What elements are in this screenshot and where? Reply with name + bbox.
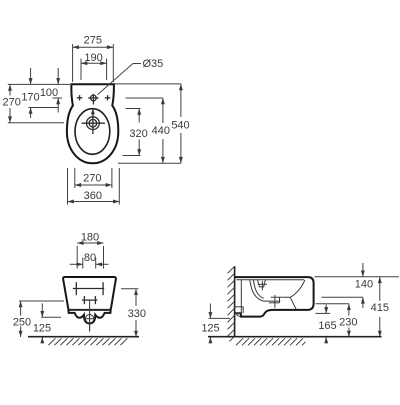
left fixing cross (top view)	[77, 95, 82, 100]
label Ø35 with leader	[98, 58, 164, 95]
extension line at inner-bowl bottom level (top view)	[123, 155, 141, 157]
svg-text:125: 125	[201, 323, 219, 335]
extension line 140 bottom level (side view)	[322, 296, 363, 298]
dim 125 (front view)	[33, 303, 51, 343]
dim 270 (top view left)	[3, 84, 21, 122]
svg-text:140: 140	[355, 278, 373, 290]
left extension line at top edge level (top view)	[8, 83, 70, 85]
dim 165 (side view)	[318, 305, 336, 344]
dim 270 (top view bottom)	[75, 168, 112, 188]
faucet hole symbol (top view)	[88, 94, 98, 105]
dim 250 (front view)	[13, 301, 31, 337]
extension line at 320 top level (top view)	[126, 108, 141, 110]
dim 330 (front view)	[128, 289, 146, 337]
svg-text:100: 100	[40, 87, 58, 99]
svg-text:320: 320	[129, 128, 147, 140]
svg-text:190: 190	[84, 52, 102, 64]
dim 170 (top view left)	[21, 68, 39, 118]
drain crosshair vertical (top view)	[92, 113, 94, 135]
extension line body top level (side view)	[315, 276, 400, 278]
extension line rim level right (front view)	[121, 288, 138, 290]
wall hatch (side view)	[228, 266, 235, 341]
svg-text:Ø35: Ø35	[143, 58, 164, 70]
extension line 250 level (front view)	[19, 300, 64, 302]
extension line at bowl bottom level (top view)	[118, 162, 181, 164]
rim line with fixing crosses (front view)	[73, 282, 104, 295]
bowl outer outline (top view)	[67, 84, 118, 163]
wall line (side view)	[234, 266, 236, 337]
bowl section profile (side view)	[250, 280, 280, 301]
lower holes line with crosses (front view)	[82, 296, 97, 304]
extension line at faucet level right (top view)	[126, 97, 163, 99]
bottom trap outline (front view)	[68, 310, 110, 324]
jet arrow on rim (top view)	[91, 108, 95, 114]
extension line 125 top level (side view)	[209, 317, 231, 319]
extension line at 170 level (top view)	[28, 107, 58, 109]
extension line 165 top level (side view)	[316, 312, 331, 314]
dim 540 (top view right)	[171, 84, 189, 163]
extension line 125 level (front view)	[41, 316, 61, 318]
extension line at faucet level left (top view)	[53, 97, 63, 99]
ground line (side view)	[208, 336, 382, 338]
body outline (front view)	[63, 277, 116, 310]
dim 100 (top view left)	[40, 68, 60, 113]
drain inner circle (top view)	[89, 119, 97, 127]
drain outlet cross (front view)	[84, 318, 95, 320]
svg-text:250: 250	[13, 316, 31, 328]
svg-text:540: 540	[171, 120, 189, 132]
inner top surface line (side view)	[237, 279, 305, 281]
extension line at drain level left (top view)	[8, 122, 64, 124]
svg-text:360: 360	[84, 190, 102, 202]
bowl inner rim ellipse (top view)	[75, 109, 110, 155]
svg-text:230: 230	[339, 317, 357, 329]
dim 320 (top view right)	[129, 109, 147, 156]
ground hatch (front view)	[48, 338, 127, 345]
extension line 230 top level (side view)	[316, 303, 349, 305]
ground line (front view)	[28, 336, 139, 338]
rear inner vertical (side view)	[240, 280, 242, 313]
center line (front view)	[89, 300, 91, 331]
svg-text:440: 440	[152, 125, 170, 137]
svg-text:270: 270	[83, 173, 101, 185]
dim 230 (side view)	[339, 304, 357, 337]
bottom edge line (front view)	[69, 309, 111, 311]
drain crosshair horizontal (top view)	[82, 122, 105, 124]
body outline (side view)	[235, 277, 314, 317]
ground hatch (side view)	[236, 338, 306, 345]
dim 80 (front view)	[70, 252, 109, 269]
svg-text:415: 415	[371, 302, 389, 314]
right fixing cross (top view)	[105, 95, 110, 100]
dim 140 (side view)	[355, 263, 373, 308]
svg-text:270: 270	[3, 96, 21, 108]
dim 180 (front view)	[77, 232, 103, 269]
svg-text:165: 165	[318, 320, 336, 332]
svg-text:170: 170	[21, 92, 39, 104]
dim 275 (top)	[73, 35, 114, 83]
dim 440 (top view right)	[152, 98, 170, 163]
svg-text:330: 330	[128, 308, 146, 320]
dim 415 (side view)	[371, 277, 389, 337]
faucet hole section (side view)	[258, 280, 267, 290]
outlet recess detail (side view)	[235, 307, 244, 317]
drain cross section (side view)	[269, 295, 290, 308]
svg-text:125: 125	[33, 323, 51, 335]
svg-text:275: 275	[84, 35, 102, 47]
right extension line at top edge level (top view)	[115, 83, 181, 85]
drain outer circle (top view)	[87, 117, 100, 130]
svg-text:80: 80	[84, 252, 96, 264]
dim 190 (top)	[81, 52, 107, 80]
svg-text:180: 180	[81, 232, 99, 244]
drain outlet circle (front view)	[85, 315, 93, 323]
dim 125 (side view)	[201, 304, 219, 344]
dim 360 (top view bottom)	[68, 168, 120, 205]
